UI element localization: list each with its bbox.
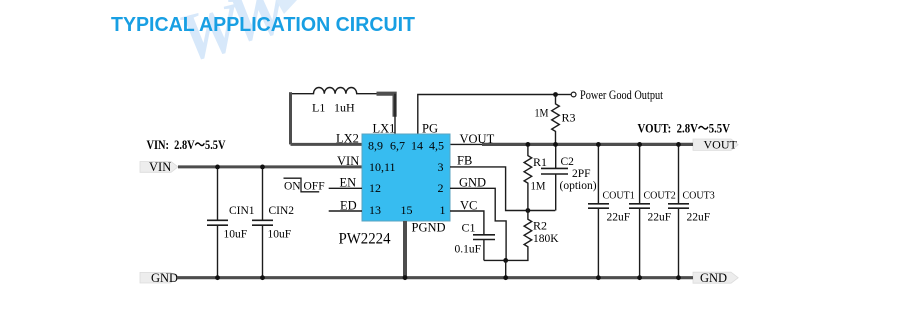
svg-text:LX1: LX1 [373, 122, 396, 136]
junction GND bus [503, 275, 508, 280]
svg-text:OFF: OFF [304, 180, 325, 192]
svg-text:0.1uF: 0.1uF [455, 244, 482, 256]
svg-text:22uF: 22uF [648, 211, 672, 223]
svg-text:6,7: 6,7 [390, 139, 405, 153]
wire VIN bus [178, 165, 362, 168]
GND terminal tag right [693, 272, 738, 283]
junction GND/COUT2 [637, 275, 642, 280]
junction VOUT/R1 [526, 142, 531, 147]
resistor R3 [552, 95, 560, 145]
svg-text:1M: 1M [535, 108, 549, 120]
junction VOUT/C2 [553, 142, 558, 147]
capacitor C1 [473, 235, 495, 261]
svg-text:1M: 1M [531, 179, 546, 193]
wire LX2 [291, 143, 363, 146]
svg-text:22uF: 22uF [607, 211, 631, 223]
svg-text:13: 13 [369, 203, 381, 217]
svg-text:LX2: LX2 [336, 132, 359, 146]
svg-text:GND: GND [459, 175, 486, 189]
junction R2/C1/GND node [503, 258, 508, 263]
wire LX2 loop vertical [289, 92, 292, 144]
svg-text:3: 3 [438, 160, 444, 174]
svg-text:EN: EN [340, 176, 357, 190]
wire GND pin [450, 188, 506, 260]
svg-text:2PF: 2PF [572, 168, 591, 180]
svg-text:ED: ED [340, 198, 357, 212]
svg-text:CIN1: CIN1 [229, 205, 255, 217]
svg-text:GND: GND [700, 271, 727, 285]
wire VOUT bus [482, 143, 693, 146]
svg-text:8,9: 8,9 [368, 139, 383, 153]
svg-text:PGND: PGND [412, 221, 446, 235]
svg-text:12: 12 [369, 181, 381, 195]
VIN terminal tag [140, 162, 178, 173]
svg-text:VOUT: VOUT [460, 132, 495, 146]
svg-text:Power Good Output: Power Good Output [580, 88, 663, 102]
svg-text:VOUT: 2.8V～5.5V: VOUT: 2.8V～5.5V [638, 122, 731, 136]
svg-text:R1: R1 [533, 155, 547, 169]
svg-text:CIN2: CIN2 [269, 205, 295, 217]
junction VOUT/COUT3 [676, 142, 681, 147]
wire LX1 [394, 94, 396, 134]
wire PGND [403, 221, 407, 278]
wire VOUT pin thin segment [450, 143, 490, 145]
svg-text:PG: PG [422, 122, 438, 136]
wire EN stub [329, 187, 362, 189]
svg-text:COUT3: COUT3 [683, 191, 715, 202]
power good output terminal [571, 92, 576, 97]
svg-text:15: 15 [401, 203, 413, 217]
svg-text:R3: R3 [562, 111, 576, 125]
svg-text:180K: 180K [533, 231, 559, 245]
capacitor C2 [541, 144, 568, 210]
svg-text:10,11: 10,11 [369, 160, 396, 174]
junction PG/R3 [553, 92, 558, 97]
wire LX1 thick overlay [377, 94, 395, 117]
svg-text:10uF: 10uF [224, 229, 248, 241]
svg-text:4,5: 4,5 [429, 139, 444, 153]
junction VOUT/COUT1 [596, 142, 601, 147]
capacitor CIN1 [207, 167, 228, 278]
svg-text:VIN: VIN [337, 154, 359, 168]
svg-text:VC: VC [460, 198, 477, 212]
VOUT terminal tag [693, 139, 738, 150]
svg-text:COUT1: COUT1 [603, 191, 635, 202]
junction GND/CIN2 [260, 275, 265, 280]
junction VIN/CIN1 [215, 165, 220, 170]
wire FB [450, 167, 555, 211]
svg-text:1uH: 1uH [334, 101, 355, 115]
capacitor COUT3 [668, 144, 689, 277]
junction GND/PGND [403, 275, 408, 280]
svg-text:ON: ON [284, 180, 301, 192]
switch ON/OFF [284, 178, 320, 192]
wire PG [418, 95, 556, 135]
svg-text:VOUT: VOUT [704, 138, 738, 152]
svg-text:(option): (option) [560, 180, 597, 192]
wire ED stub [329, 210, 362, 212]
svg-text:2: 2 [438, 181, 444, 195]
svg-text:PW2224: PW2224 [339, 230, 391, 247]
svg-text:10uF: 10uF [268, 229, 292, 241]
wire VC [450, 211, 484, 235]
wire PG to terminal [556, 94, 572, 96]
GND terminal tag left [140, 272, 178, 283]
junction GND/COUT3 [676, 275, 681, 280]
IC U1 PW2224 [362, 134, 450, 221]
wire node to GND bus [505, 260, 507, 277]
svg-text:GND: GND [151, 271, 178, 285]
svg-text:14: 14 [411, 139, 423, 153]
svg-text:22uF: 22uF [687, 211, 711, 223]
svg-text:C1: C1 [462, 221, 476, 235]
junction GND/CIN1 [215, 275, 220, 280]
junction VOUT/COUT2 [637, 142, 642, 147]
junction GND/COUT1 [596, 275, 601, 280]
svg-text:L1: L1 [312, 101, 325, 115]
svg-text:TYPICAL APPLICATION CIRCUIT: TYPICAL APPLICATION CIRCUIT [111, 13, 415, 36]
resistor R2 [484, 211, 532, 261]
wire GND bus [177, 276, 693, 279]
watermark [171, 0, 300, 77]
svg-text:VIN: VIN [149, 160, 171, 174]
inductor L1 [291, 87, 396, 93]
junction VIN/CIN2 [260, 165, 265, 170]
capacitor COUT2 [629, 144, 650, 277]
capacitor COUT1 [588, 144, 609, 277]
svg-text:1: 1 [440, 203, 446, 217]
junction FB node [526, 208, 531, 213]
svg-text:COUT2: COUT2 [644, 191, 676, 202]
resistor R1 [524, 144, 532, 210]
capacitor CIN2 [252, 167, 273, 278]
svg-text:FB: FB [457, 154, 472, 168]
svg-text:VIN: 2.8V～5.5V: VIN: 2.8V～5.5V [147, 138, 226, 152]
svg-text:C2: C2 [561, 156, 575, 168]
